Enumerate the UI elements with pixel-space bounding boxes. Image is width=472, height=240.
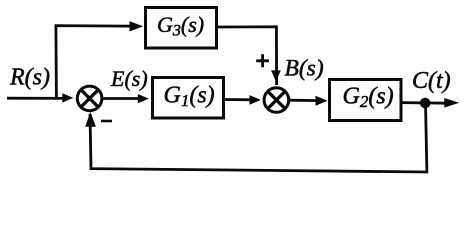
svg-text:G3(s): G3(s) [157, 12, 204, 40]
svg-text:E(s): E(s) [110, 66, 148, 91]
svg-text:R(s): R(s) [9, 65, 50, 91]
svg-text:G1(s): G1(s) [164, 83, 215, 111]
svg-text:B(s): B(s) [285, 55, 324, 81]
svg-text:G2(s): G2(s) [343, 84, 394, 112]
svg-text:C(t): C(t) [412, 68, 451, 94]
